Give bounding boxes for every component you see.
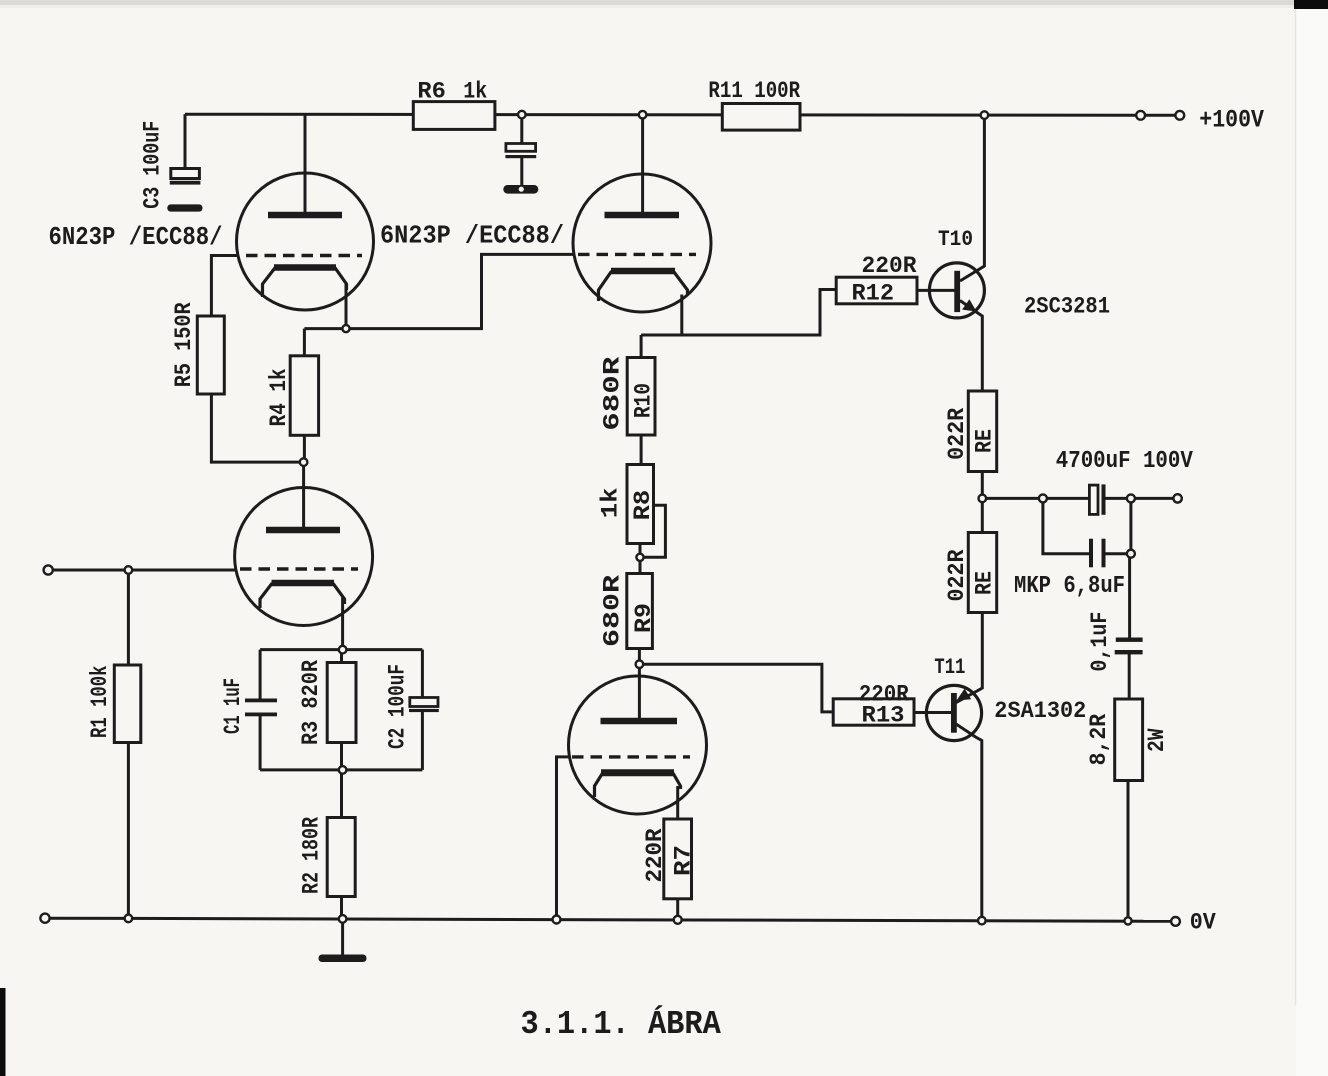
tube V3 grid (dashed) — [578, 253, 696, 256]
resistor R7 220R — [664, 819, 692, 899]
svg-text:1k: 1k — [463, 79, 487, 105]
tube V4 6N23P envelope — [569, 676, 707, 814]
resistor 8.2R 2W — [1115, 699, 1143, 781]
ground blob below decoupling cap — [503, 185, 538, 194]
node input / R1 — [125, 566, 133, 574]
terminal +100V outer — [1175, 111, 1184, 120]
svg-text:R12: R12 — [852, 281, 895, 307]
wire node to R2 — [340, 774, 343, 818]
svg-text:022R: 022R — [944, 549, 970, 601]
terminal 0V left — [40, 914, 49, 923]
svg-text:RE: RE — [972, 571, 998, 595]
terminal +100V inner — [1136, 111, 1145, 120]
svg-text:R11 100R: R11 100R — [708, 78, 800, 104]
svg-text:R5 150R: R5 150R — [171, 302, 197, 387]
wire R10 top lead — [640, 335, 643, 358]
svg-text:C1 1uF: C1 1uF — [220, 678, 246, 734]
wire decoupling cap to ground blob — [520, 157, 523, 188]
wire ground stub — [341, 922, 344, 956]
wire tube V1 grid lead — [211, 256, 237, 317]
node 0V at R2 ground — [339, 915, 347, 923]
tube V3 6N23P envelope — [573, 174, 711, 312]
tube V1 anode plate — [268, 212, 342, 219]
resistor R5 150R — [197, 316, 224, 394]
svg-text:2W: 2W — [1144, 728, 1170, 752]
svg-text:R4 1k: R4 1k — [266, 368, 292, 426]
svg-text:MKP 6,8uF: MKP 6,8uF — [1014, 573, 1125, 600]
ground symbol at R2 — [319, 955, 367, 963]
tube V3 cathode — [599, 271, 688, 301]
tube V4 cathode — [595, 773, 681, 797]
tube V3 anode plate — [605, 212, 680, 219]
resistor RE1 022R — [968, 391, 996, 472]
tube V2 anode plate — [266, 527, 340, 534]
terminal output — [1173, 494, 1181, 502]
capacitor C3 100uF — [167, 169, 202, 212]
tube V1 grid (dashed) — [246, 254, 362, 257]
transistor T10 2SC3281 — [929, 263, 984, 318]
svg-text:2SC3281: 2SC3281 — [1024, 294, 1110, 320]
wire C1 top lead — [259, 650, 262, 699]
wire V1 cathode node to V3 grid — [304, 254, 574, 328]
svg-text:R3 820R: R3 820R — [298, 660, 324, 745]
wire R3 top lead — [340, 650, 343, 663]
wire V3 cathode to R12 — [682, 290, 837, 336]
wire RC network bottom — [260, 768, 422, 771]
node R9 / V4 anode / R13 — [636, 660, 644, 668]
tube V4 grid (dashed) — [572, 755, 690, 758]
wire T11 collector to 0V rail — [956, 724, 982, 920]
node V2 cathode / RC top — [339, 646, 347, 654]
resistor R1 100k — [114, 665, 141, 743]
wire R2 to 0V rail — [340, 897, 343, 916]
node RE1 / RE2 output — [979, 495, 987, 503]
node R5 / R4 / V2 anode — [300, 458, 308, 466]
wire top rail terminal segment — [1144, 114, 1176, 117]
capacitor decoupling at R6 node — [505, 144, 536, 159]
node top rail at T10 collector — [981, 111, 989, 119]
svg-text:R10: R10 — [631, 383, 657, 418]
node top rail at R6 cap — [518, 111, 526, 119]
node 0V at R1 — [125, 915, 133, 923]
wire input node to tube V2 grid — [132, 569, 235, 572]
svg-text:4700uF 100V: 4700uF 100V — [1056, 448, 1194, 475]
wire RE2 to T11 emitter — [956, 613, 982, 703]
capacitor 0.1uF — [1115, 638, 1143, 655]
wire R8 to R9 — [639, 544, 642, 574]
svg-text:R2 180R: R2 180R — [299, 817, 325, 894]
capacitor C2 100uF — [409, 698, 439, 713]
svg-text:RE: RE — [972, 429, 998, 453]
wire MKP node down to 0.1uF — [1128, 554, 1131, 638]
wire 0.1uF to 8.2R — [1128, 654, 1131, 699]
svg-text:T10: T10 — [938, 227, 973, 252]
svg-text:680R: 680R — [600, 357, 626, 431]
wire R4 top to cathode junction — [303, 329, 306, 356]
wire R8 wiper bypass — [644, 505, 666, 557]
svg-text:R6: R6 — [417, 79, 446, 105]
wire C3 branch from rail — [184, 114, 187, 168]
svg-text:R7: R7 — [671, 845, 697, 876]
wire node to R13 — [639, 664, 833, 712]
wire node to tube V4 anode — [638, 664, 641, 721]
tube V2 grid (dashed) — [240, 567, 358, 570]
wire output rail left — [982, 497, 1089, 500]
node V1 cathode / R4 — [342, 325, 349, 332]
tube V1 cathode — [263, 268, 347, 298]
capacitor MKP 6.8uF — [1089, 539, 1106, 568]
wire tube V1 anode drop — [304, 114, 307, 216]
wire tie output node to MKP node — [1129, 498, 1132, 553]
wire 0V bottom rail — [50, 918, 1172, 921]
tube V2 6N23P envelope — [235, 488, 373, 626]
wire R4 bottom to node — [303, 435, 306, 458]
wire R9 bottom to node — [638, 649, 641, 665]
wire tube V2 cathode lead — [341, 598, 344, 647]
wire input terminal to node — [53, 569, 126, 572]
wire T10 emitter to RE — [960, 301, 982, 392]
wire R13 to T11 base — [914, 711, 952, 714]
wire MKP branch down and across — [1043, 498, 1090, 553]
scan artifact bottom-left black bar — [0, 988, 6, 1076]
scan artifact top-right black block — [1294, 0, 1328, 9]
resistor R2 180R — [327, 818, 355, 897]
wire +100V top rail — [185, 114, 1137, 115]
svg-text:T11: T11 — [934, 655, 965, 680]
capacitor 4700uF 100V — [1089, 484, 1105, 514]
node output right of 4700uF — [1127, 494, 1135, 502]
node 0V at 8.2R — [1124, 917, 1131, 924]
terminal input — [44, 565, 53, 574]
node output / MKP branch — [1039, 494, 1047, 502]
wire 8.2R to 0V rail — [1127, 781, 1130, 921]
resistor R12 220R — [836, 277, 917, 304]
resistor R9 680R — [627, 574, 653, 649]
svg-text:6N23P /ECC88/: 6N23P /ECC88/ — [380, 221, 564, 251]
svg-text:8,2R: 8,2R — [1086, 714, 1112, 766]
resistor R11 100R — [722, 104, 800, 131]
node RC bottom / R2 — [339, 766, 347, 774]
capacitor C1 1uF — [245, 699, 277, 717]
node 0V at V4 grid — [553, 916, 561, 924]
wire R5 bottom to node — [211, 394, 300, 462]
resistor R6 1k — [413, 102, 495, 130]
terminal 0V right — [1171, 917, 1180, 926]
wire C2 top lead — [421, 650, 424, 698]
svg-text:0,1uF: 0,1uF — [1087, 612, 1113, 672]
svg-text:+100V: +100V — [1199, 106, 1264, 135]
wire MKP right plate to node — [1105, 552, 1131, 555]
wire RE1 to output node — [981, 472, 984, 499]
node top rail at V3 anode — [639, 111, 647, 119]
wire tube V4 cathode to R7 — [676, 786, 679, 819]
svg-text:022R: 022R — [944, 408, 970, 460]
resistor R13 220R — [833, 699, 914, 725]
wire output node down to RE2 — [981, 498, 984, 532]
svg-text:R1 100k: R1 100k — [87, 665, 113, 738]
wire RC network top — [260, 648, 422, 651]
svg-text:C3 100uF: C3 100uF — [140, 121, 166, 209]
svg-text:6N23P /ECC88/: 6N23P /ECC88/ — [49, 222, 223, 252]
wire C1 bottom lead — [259, 716, 262, 770]
svg-text:R9: R9 — [631, 603, 657, 633]
resistor R3 820R — [327, 663, 356, 743]
node 0V at T11 collector — [978, 917, 986, 925]
wire tube V1 cathode lead — [345, 284, 348, 329]
wire output rail right of 4700uF — [1105, 497, 1174, 500]
wire decoupling cap branch — [520, 115, 523, 144]
wire R7 to 0V rail — [676, 899, 679, 916]
wire R3 bottom lead — [340, 743, 343, 767]
wire T10 collector drop — [960, 115, 984, 281]
svg-text:1k: 1k — [598, 487, 624, 518]
resistor R10 680R — [627, 358, 655, 436]
wire tube V3 cathode lead — [641, 295, 682, 336]
transistor T11 2SA1302 — [926, 685, 981, 740]
wire C2 bottom lead — [421, 712, 424, 770]
svg-text:0V: 0V — [1190, 910, 1216, 936]
svg-text:R8: R8 — [630, 490, 656, 521]
resistor R4 1k — [290, 356, 318, 436]
wire input node down to R1 — [127, 574, 130, 665]
svg-text:R13: R13 — [862, 703, 905, 729]
svg-text:2SA1302: 2SA1302 — [994, 698, 1086, 724]
wire tube V4 grid to 0V rail — [557, 757, 570, 915]
wire R10 to R8 — [640, 435, 643, 465]
node 0V at R7 — [674, 916, 682, 924]
node MKP right — [1127, 550, 1135, 558]
tube V1 6N23P envelope — [237, 173, 374, 310]
wire node to tube V2 anode — [302, 466, 305, 530]
tube V2 cathode — [260, 583, 345, 608]
resistor R8 1k — [627, 465, 654, 544]
wire R12 to T10 base — [917, 289, 955, 292]
svg-text:680R: 680R — [600, 575, 626, 647]
svg-text:220R: 220R — [862, 253, 917, 279]
svg-text:C2 100uF: C2 100uF — [385, 664, 411, 749]
wire R1 to 0V rail — [127, 743, 130, 919]
wire tube V3 anode drop — [641, 115, 644, 216]
svg-text:3.1.1. ÁBRA: 3.1.1. ÁBRA — [521, 1005, 721, 1043]
tube V4 anode plate — [601, 718, 678, 725]
node R8 wiper — [636, 554, 643, 561]
svg-text:220R: 220R — [642, 828, 668, 882]
resistor RE2 022R — [968, 533, 996, 613]
